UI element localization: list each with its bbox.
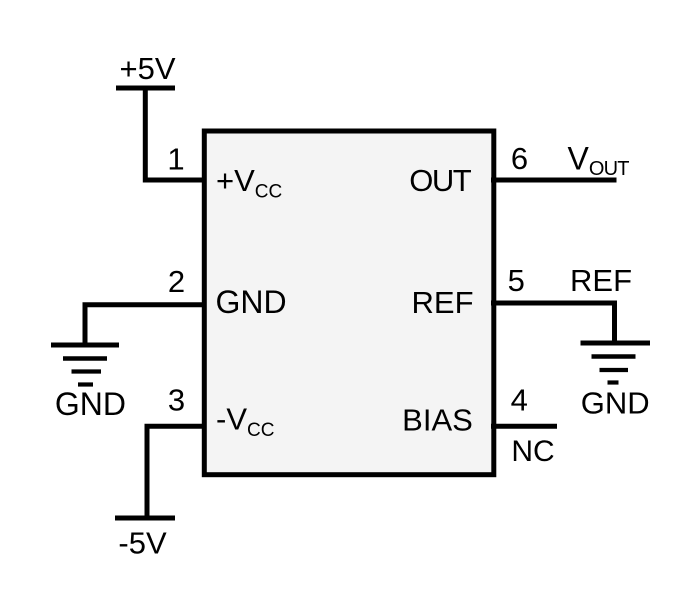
svg-text:6: 6 — [511, 141, 528, 176]
svg-text:REF: REF — [570, 263, 632, 298]
wire pin3 to -5V — [147, 426, 205, 518]
op-amp U1 body — [204, 131, 494, 475]
wire pin4 NC stub — [491, 424, 557, 429]
-5V supply bar — [115, 516, 175, 521]
wire pin5 to ground — [491, 303, 615, 343]
svg-text:BIAS: BIAS — [402, 403, 473, 438]
ground symbol left — [51, 345, 119, 385]
svg-text:GND: GND — [55, 386, 126, 422]
svg-text:+5V: +5V — [119, 51, 175, 86]
svg-text:GND: GND — [581, 386, 650, 421]
svg-text:4: 4 — [511, 383, 528, 418]
svg-text:1: 1 — [167, 142, 184, 177]
svg-text:REF: REF — [412, 285, 474, 320]
svg-text:NC: NC — [511, 435, 554, 468]
svg-text:5: 5 — [508, 263, 525, 298]
svg-text:OUT: OUT — [409, 163, 472, 198]
svg-text:GND: GND — [216, 284, 287, 320]
ground symbol right — [581, 343, 651, 383]
wire pin2 to ground — [85, 305, 205, 345]
svg-text:2: 2 — [168, 264, 185, 299]
svg-text:-5V: -5V — [118, 526, 167, 561]
+5V supply bar — [116, 86, 175, 91]
wire pin1 to +5V — [145, 88, 204, 180]
wire pin6 output — [491, 178, 617, 183]
svg-text:3: 3 — [168, 382, 185, 417]
